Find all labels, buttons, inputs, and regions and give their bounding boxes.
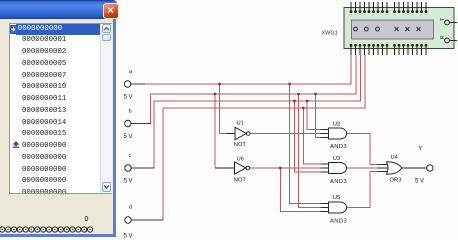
svg-text:U3: U3	[333, 156, 340, 162]
svg-text:U4: U4	[391, 154, 399, 160]
svg-text:5 V: 5 V	[415, 179, 424, 185]
display digit o1	[354, 27, 358, 31]
svg-text:5 V: 5 V	[124, 95, 133, 101]
panel output terminals	[0, 223, 96, 235]
wire U1 output to U2 input 2	[251, 133, 321, 135]
gate U4 OR3	[378, 154, 402, 183]
row with up-arrow marker	[10, 141, 112, 153]
XWG1 bottom pins group 2	[395, 45, 427, 55]
scrollbar thumb	[102, 34, 111, 41]
display digit o2	[364, 27, 368, 31]
terminal b	[124, 109, 152, 141]
svg-text:OR3: OR3	[390, 178, 402, 184]
svg-text:5 V: 5 V	[124, 134, 133, 140]
word generator instrument window	[0, 0, 116, 237]
svg-text:U5: U5	[333, 195, 340, 201]
wire a to U5 input 1	[290, 84, 321, 204]
node junction U6 output	[279, 167, 282, 170]
wire U4 output	[401, 167, 427, 169]
svg-text:AND3: AND3	[330, 218, 347, 224]
scrollbar	[100, 24, 112, 194]
svg-text:5 V: 5 V	[124, 179, 133, 185]
svg-text:U1: U1	[237, 120, 244, 126]
svg-text:5 V: 5 V	[124, 234, 133, 240]
node junction wire a / U1	[218, 83, 221, 86]
scrollbar up button	[102, 24, 111, 33]
XWG1 top pins group 1	[351, 2, 387, 11]
gate U3 AND3	[321, 156, 348, 185]
XWG1 T terminal	[440, 18, 457, 25]
wire U3 output to U4	[347, 167, 378, 169]
gate U2 AND3	[321, 121, 348, 150]
svg-text:R: R	[440, 35, 446, 39]
word generator XWG1	[322, 8, 454, 49]
display digit o3	[376, 27, 380, 31]
terminal c	[124, 153, 155, 185]
panel 0 label	[85, 216, 89, 223]
node junction d/U3	[302, 107, 305, 110]
wire d to U3 input 1	[303, 108, 320, 164]
svg-text:c: c	[129, 153, 132, 159]
row 1 selected	[10, 24, 112, 36]
terminal Y	[415, 146, 433, 185]
svg-text:NOT: NOT	[234, 142, 247, 148]
svg-text:AND3: AND3	[330, 144, 347, 150]
XWG1 bottom pins group 1	[351, 45, 387, 55]
wire U5 output to U4	[347, 172, 378, 208]
svg-text:Y: Y	[419, 146, 423, 152]
XWG1 R terminal	[440, 35, 457, 43]
gate U5 AND3	[321, 195, 348, 225]
display digit x1	[395, 27, 399, 31]
wire U2 output to U4	[347, 134, 378, 165]
wire U6 input drop	[214, 94, 216, 168]
list box	[9, 23, 112, 195]
svg-text:U6: U6	[237, 156, 244, 162]
node junction a/U5	[288, 83, 291, 86]
node junction b/U2	[314, 93, 317, 96]
wire b to U5 input 2	[299, 94, 321, 208]
wire U1 input drop	[220, 84, 229, 134]
wire a	[145, 55, 352, 84]
close button	[103, 3, 119, 19]
node junction b/U5	[297, 93, 300, 96]
wire c to U2 input 1	[307, 101, 320, 130]
svg-text:T: T	[440, 18, 446, 21]
wire d	[163, 55, 365, 220]
display digit x3	[417, 27, 421, 31]
XWG1 top pins group 2	[395, 2, 427, 11]
node junction c/U2	[306, 100, 309, 103]
terminal a	[124, 69, 145, 101]
svg-text:XWG1: XWG1	[322, 31, 338, 37]
title bar	[0, 0, 117, 19]
wire c to U3 input 3	[294, 101, 320, 172]
svg-text:d: d	[129, 205, 132, 211]
display digit x2	[405, 27, 409, 31]
wire U6 output branch to U5 input 3	[280, 168, 320, 212]
op-amp U1 NOT gate	[226, 120, 250, 148]
svg-text:a: a	[129, 69, 133, 75]
node junction c/U3	[293, 100, 296, 103]
node junction wire b / U6	[214, 93, 217, 96]
svg-text:NOT: NOT	[234, 177, 247, 183]
gate U6 NOT	[215, 156, 250, 183]
svg-text:U2: U2	[333, 121, 340, 127]
terminal d	[124, 205, 164, 240]
wire b	[151, 55, 357, 124]
svg-text:b: b	[129, 109, 132, 115]
wire U6 output to U3 input 2	[250, 167, 321, 169]
scrollbar down button	[102, 182, 111, 192]
svg-text:AND3: AND3	[330, 179, 347, 185]
wire c	[154, 55, 361, 168]
wire b to U2 input 3	[316, 94, 321, 138]
